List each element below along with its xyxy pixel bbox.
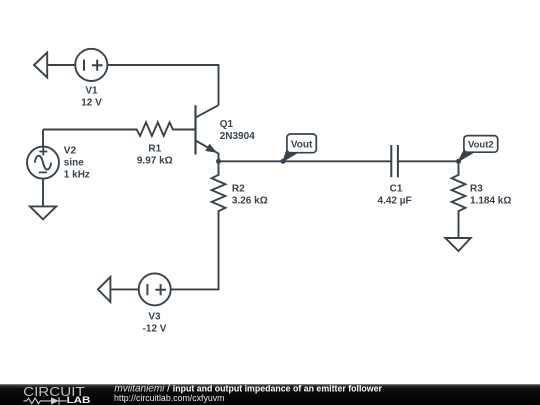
svg-text:1 kHz: 1 kHz xyxy=(64,169,90,180)
svg-text:2N3904: 2N3904 xyxy=(220,131,255,142)
svg-text:Q1: Q1 xyxy=(220,119,234,130)
svg-text:http://circuitlab.com/cxfyuvm: http://circuitlab.com/cxfyuvm xyxy=(114,393,224,403)
svg-text:12 V: 12 V xyxy=(81,98,102,109)
svg-text:4.42 µF: 4.42 µF xyxy=(378,196,412,207)
svg-text:LAB: LAB xyxy=(67,395,91,405)
svg-text:R2: R2 xyxy=(232,184,245,195)
svg-text:V1: V1 xyxy=(85,86,98,97)
svg-text:R1: R1 xyxy=(148,144,161,155)
svg-text:C1: C1 xyxy=(390,184,403,195)
svg-text:R3: R3 xyxy=(470,184,483,195)
svg-text:1.184 kΩ: 1.184 kΩ xyxy=(470,196,511,207)
svg-text:-12 V: -12 V xyxy=(143,323,167,334)
svg-text:V3: V3 xyxy=(148,311,161,322)
svg-text:sine: sine xyxy=(64,157,84,168)
svg-text:V2: V2 xyxy=(64,145,77,156)
svg-text:9.97 kΩ: 9.97 kΩ xyxy=(137,156,173,167)
svg-text:3.26 kΩ: 3.26 kΩ xyxy=(232,196,268,207)
svg-text:Vout2: Vout2 xyxy=(468,139,494,150)
svg-text:Vout: Vout xyxy=(291,139,313,150)
